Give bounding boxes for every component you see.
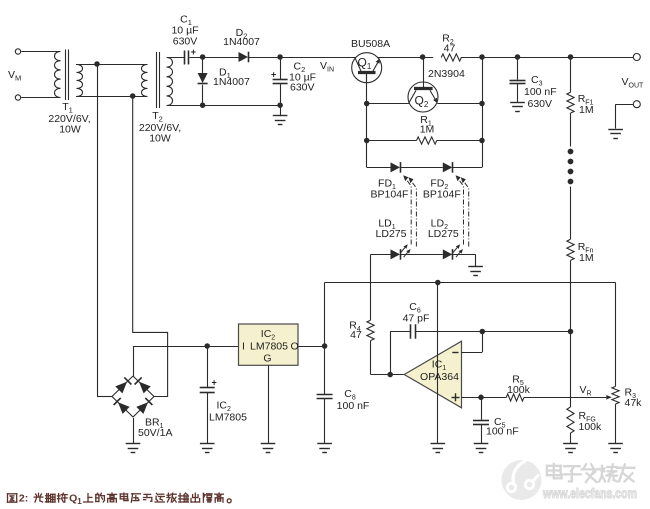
label RFG	[579, 410, 603, 433]
LED LD1	[391, 249, 401, 260]
svg-text:2:: 2:	[19, 493, 28, 505]
resistor R1	[417, 137, 437, 144]
wire	[21, 52, 60, 98]
label T1	[48, 101, 90, 135]
transformer T2 secondary	[167, 58, 173, 106]
ground	[608, 130, 623, 139]
label T2	[139, 110, 181, 144]
wire	[570, 332, 572, 408]
wire	[133, 418, 135, 444]
label VOUT	[622, 76, 645, 90]
svg-text:1M: 1M	[579, 252, 594, 264]
wire	[367, 140, 417, 142]
wire	[133, 96, 168, 397]
label R2	[442, 32, 455, 54]
label VR	[580, 384, 592, 398]
label VM	[8, 69, 21, 83]
op-amp supply wire	[437, 283, 439, 444]
node junction	[200, 54, 206, 60]
svg-text:100k: 100k	[507, 384, 531, 396]
wire	[570, 260, 572, 331]
wire	[482, 57, 484, 167]
wire	[325, 282, 616, 284]
wire	[570, 113, 572, 146]
label BR1	[138, 416, 172, 439]
svg-text:47: 47	[350, 329, 362, 341]
photodiode FD2	[443, 162, 453, 173]
wire	[371, 254, 391, 256]
terminal VOUT return	[633, 101, 640, 108]
wire	[570, 187, 572, 240]
label BU508A	[351, 38, 390, 50]
svg-text:47: 47	[444, 42, 456, 54]
wire	[324, 283, 326, 395]
wire	[76, 64, 147, 66]
label FD2	[423, 177, 461, 200]
capacitor C3	[510, 57, 526, 102]
svg-text:47k: 47k	[625, 397, 643, 409]
wire	[615, 404, 617, 444]
label RF1	[578, 93, 594, 116]
wire	[423, 57, 425, 82]
wire	[437, 140, 482, 142]
terminal VM top	[15, 49, 20, 54]
photodiode FD1	[391, 162, 401, 173]
transformer T2 primary	[142, 65, 148, 97]
svg-text:www.elecfans.com: www.elecfans.com	[542, 486, 637, 501]
node junction	[568, 54, 574, 60]
transformer T1 primary	[55, 52, 61, 98]
wire	[377, 57, 433, 59]
terminal VOUT	[633, 54, 640, 61]
wire	[167, 57, 185, 59]
ground	[608, 444, 623, 453]
svg-text:50V/1A: 50V/1A	[138, 427, 172, 439]
ground	[563, 444, 578, 453]
capacitor C6	[411, 324, 416, 338]
label LD1	[376, 218, 407, 241]
caption	[8, 493, 232, 506]
transformer T1 secondary	[77, 65, 83, 97]
wire	[452, 167, 482, 169]
wire	[370, 254, 372, 320]
node junction	[277, 54, 283, 60]
svg-text:BP104F: BP104F	[371, 189, 409, 201]
svg-text:LD275: LD275	[376, 228, 407, 240]
ground	[261, 444, 276, 453]
wire pin G	[268, 365, 270, 443]
svg-text:100 nF: 100 nF	[486, 426, 519, 438]
terminal VM bottom	[15, 95, 20, 100]
label IC2 cap	[209, 400, 247, 424]
wire	[76, 96, 147, 98]
label C5	[486, 416, 519, 438]
wire	[570, 57, 572, 92]
wire	[280, 105, 282, 116]
svg-text:630V: 630V	[528, 98, 553, 110]
transformer T1 core	[66, 50, 69, 101]
svg-text:BU508A: BU508A	[351, 38, 390, 50]
svg-text:1M: 1M	[420, 124, 435, 136]
wire	[570, 433, 572, 444]
svg-text:100 nF: 100 nF	[524, 86, 557, 98]
label Q2	[415, 94, 429, 110]
op-amp plus input	[452, 393, 507, 401]
ground	[510, 103, 525, 112]
LED arrows LD2	[453, 244, 463, 257]
svg-text:1N4007: 1N4007	[223, 36, 260, 48]
svg-text:10W: 10W	[149, 132, 171, 144]
LED arrows LD1	[401, 244, 411, 257]
ground	[273, 116, 288, 125]
resistor RFG	[567, 407, 574, 433]
resistor R5	[506, 394, 524, 401]
watermark logo	[502, 453, 542, 500]
ground	[431, 444, 446, 453]
wire	[167, 105, 281, 107]
wire	[481, 397, 483, 420]
node junction	[387, 372, 393, 378]
svg-text:I: I	[242, 341, 245, 353]
label LD2	[428, 218, 459, 241]
transistor Q2	[408, 82, 438, 112]
svg-text:+: +	[212, 378, 217, 388]
node junction	[364, 138, 370, 144]
node junction	[130, 93, 136, 99]
wire	[437, 103, 482, 105]
light path FD2	[456, 175, 469, 246]
node junction	[200, 102, 206, 108]
capacitor C8	[317, 395, 333, 444]
node junction	[322, 343, 328, 349]
node ellipsis	[568, 149, 574, 185]
ground	[200, 444, 215, 453]
resistor R2	[441, 54, 461, 61]
label Q1	[358, 56, 372, 72]
label R5	[507, 373, 531, 396]
wire and wiper arrow	[524, 395, 612, 400]
wire	[366, 74, 368, 168]
wire	[400, 254, 443, 256]
wire	[615, 283, 617, 387]
node junction	[479, 101, 485, 107]
LED LD2	[443, 249, 453, 260]
wire	[249, 57, 356, 59]
node junction	[364, 101, 370, 107]
wire	[452, 254, 475, 266]
label C6	[403, 301, 430, 325]
label 2N3904	[428, 68, 465, 80]
svg-text:10W: 10W	[59, 123, 81, 135]
capacitor C5	[473, 421, 489, 444]
wire	[367, 103, 409, 105]
node junction	[204, 343, 210, 349]
svg-text:630V: 630V	[290, 82, 315, 94]
svg-text:OPA364: OPA364	[420, 371, 459, 383]
svg-text:1M: 1M	[579, 104, 594, 116]
wire	[133, 346, 239, 348]
svg-text:100 nF: 100 nF	[337, 400, 370, 412]
svg-text:630V: 630V	[173, 36, 198, 48]
wire	[390, 332, 410, 375]
label R1	[420, 114, 435, 136]
node junction	[479, 138, 485, 144]
wire	[416, 331, 571, 333]
op-amp minus input	[452, 332, 482, 353]
node junction	[420, 54, 426, 60]
wire	[133, 346, 135, 376]
capacitor C1	[185, 47, 197, 65]
light path FD1	[403, 175, 416, 246]
svg-text:O: O	[291, 341, 299, 353]
label D1	[213, 67, 250, 89]
wire	[367, 167, 391, 169]
bridge rectifier BR1	[112, 376, 154, 417]
label C1	[171, 14, 198, 48]
label R4	[349, 319, 362, 341]
svg-text:LM7805: LM7805	[209, 412, 247, 424]
node junction	[277, 102, 283, 108]
node junction	[568, 329, 574, 335]
wire	[461, 57, 634, 59]
regulator IC2	[239, 324, 299, 365]
diode D2	[239, 52, 249, 63]
node junction	[478, 395, 484, 401]
label C8	[337, 388, 370, 412]
svg-text:LD275: LD275	[428, 228, 459, 240]
wire	[371, 341, 405, 375]
node junction	[515, 54, 521, 60]
watermark text	[542, 464, 637, 501]
label D2	[223, 27, 260, 48]
node junction	[479, 54, 485, 60]
transistor Q1	[352, 53, 382, 83]
potentiometer R3	[612, 386, 619, 404]
op-amp IC1	[404, 341, 461, 408]
svg-text:BP104F: BP104F	[423, 189, 461, 201]
label IC2	[242, 328, 299, 365]
wire	[190, 57, 239, 59]
transformer T2 core	[157, 52, 160, 108]
wire	[400, 167, 443, 169]
resistor RF1	[567, 92, 574, 113]
label RFn	[578, 241, 594, 264]
wire	[616, 104, 634, 128]
wire pin O	[298, 346, 325, 348]
label VIN	[320, 60, 334, 74]
ground	[126, 444, 141, 453]
label FD1	[371, 177, 409, 200]
label R3	[625, 386, 643, 409]
wire	[97, 64, 113, 397]
svg-text:+: +	[271, 70, 276, 80]
svg-text:1N4007: 1N4007	[213, 76, 250, 88]
resistor RFn	[567, 239, 574, 260]
svg-text:2N3904: 2N3904	[428, 68, 465, 80]
label IC1	[420, 358, 459, 383]
svg-text:47 pF: 47 pF	[403, 312, 430, 324]
capacitor IC2 input cap	[200, 346, 217, 444]
ground	[474, 444, 489, 453]
label C3	[524, 74, 557, 110]
capacitor C2	[271, 57, 288, 105]
svg-text:100k: 100k	[579, 421, 603, 433]
ground	[468, 267, 483, 276]
svg-text:G: G	[263, 353, 271, 365]
node junction	[480, 329, 486, 335]
svg-text:+: +	[191, 47, 196, 57]
ground	[317, 444, 332, 453]
node junction	[94, 61, 100, 67]
svg-text:LM7805: LM7805	[250, 341, 288, 353]
node junction	[435, 280, 441, 286]
label C2	[289, 60, 316, 93]
diode D1	[198, 57, 208, 105]
resistor R4	[367, 320, 374, 340]
